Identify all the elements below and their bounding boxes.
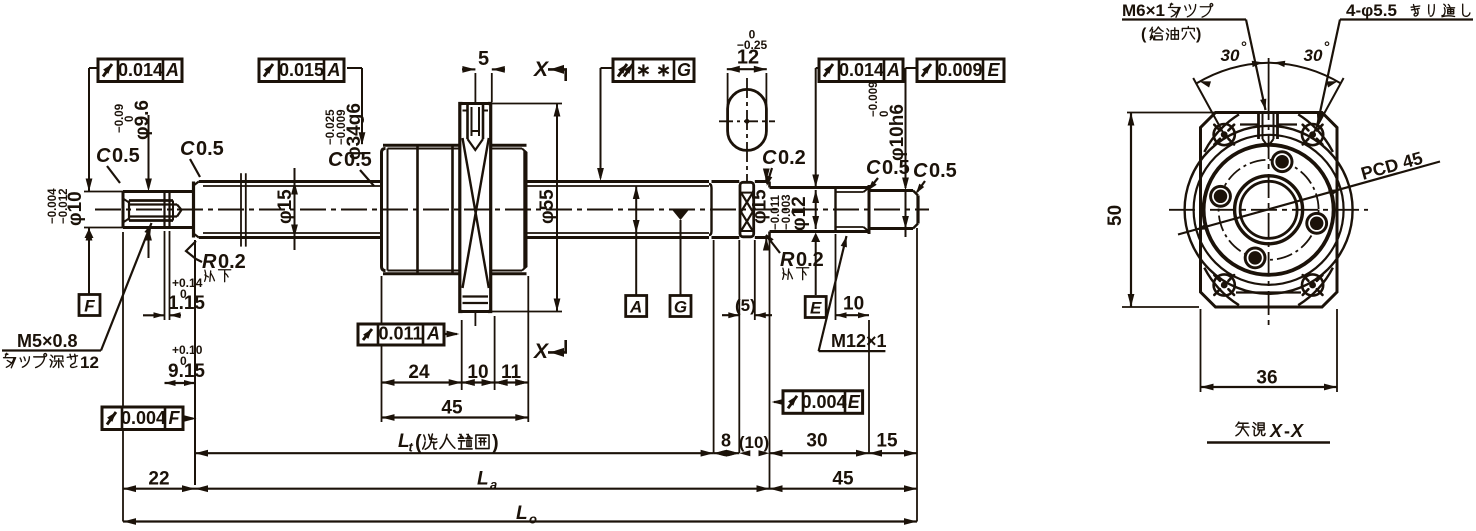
FCF runout 0.009 E xyxy=(906,59,1005,82)
dimension 45 row xyxy=(382,390,529,422)
svg-text:°: ° xyxy=(1241,39,1247,56)
FCF runout 0.014 A (right) xyxy=(816,59,903,82)
end view centerlines xyxy=(1169,58,1368,330)
svg-text:9.15: 9.15 xyxy=(168,361,205,382)
svg-text:−0.003: −0.003 xyxy=(781,195,793,231)
svg-text:30: 30 xyxy=(806,431,827,452)
svg-text:50: 50 xyxy=(1105,205,1126,226)
svg-text:8: 8 xyxy=(721,431,731,451)
label M6x1 tap (oil hole) xyxy=(1122,1,1266,110)
svg-text:36: 36 xyxy=(1256,368,1277,389)
dimension 22 xyxy=(123,232,195,522)
svg-text:A: A xyxy=(629,298,642,317)
dimension 5 (flange) xyxy=(462,48,505,102)
FCF runout 0.015 A xyxy=(259,59,362,82)
svg-text:): ) xyxy=(1196,26,1201,43)
label Lt hardened range text xyxy=(415,432,499,454)
FCF total runout ** G xyxy=(597,59,694,181)
svg-text:0: 0 xyxy=(879,111,891,117)
dimension 12 with tolerance xyxy=(727,28,768,73)
dimension Lt hardened range xyxy=(195,240,714,457)
svg-text:−0.012: −0.012 xyxy=(58,189,70,225)
svg-text:−0.09: −0.09 xyxy=(114,104,126,133)
svg-text:X: X xyxy=(533,340,550,363)
angular dimension 30-30 xyxy=(1193,39,1343,135)
svg-text:C: C xyxy=(180,138,195,160)
dimension 8 xyxy=(714,431,740,457)
chamfer label C0.5 (shaft end) xyxy=(913,160,957,194)
datum E with box xyxy=(805,297,826,318)
nut body left section xyxy=(382,145,460,273)
label 4-phi5.5 through hole xyxy=(1317,1,1473,124)
svg-text:0.5: 0.5 xyxy=(882,157,910,179)
FCF runout 0.011 A with leader xyxy=(358,324,460,346)
dimension 30 xyxy=(770,320,870,457)
svg-text:t: t xyxy=(409,440,414,455)
chamfer label C0.5 (third, at step) xyxy=(328,149,374,186)
svg-text:−0.025: −0.025 xyxy=(325,109,337,145)
svg-text:0.015: 0.015 xyxy=(279,60,324,80)
svg-text:X: X xyxy=(533,58,550,81)
dimension 9.15 xyxy=(165,240,206,485)
dimension phi15 left xyxy=(275,168,298,250)
svg-text:M5×0.8: M5×0.8 xyxy=(17,331,78,351)
svg-text:5: 5 xyxy=(478,48,489,70)
break lines xyxy=(241,173,246,246)
svg-text:-: - xyxy=(1284,421,1290,441)
svg-text:a: a xyxy=(490,477,497,492)
dimension 45 (right) xyxy=(770,469,918,493)
svg-text:12: 12 xyxy=(80,353,99,372)
M12 thread section xyxy=(836,185,870,234)
main centerline xyxy=(95,209,929,211)
svg-text:G: G xyxy=(674,298,687,317)
svg-text:24: 24 xyxy=(408,362,430,383)
dimension phi34g6 with tolerance and leader from FCF 0.015A xyxy=(325,68,365,160)
M5 tap hole thread xyxy=(123,199,182,223)
svg-text:0.5: 0.5 xyxy=(196,138,224,160)
svg-text:L: L xyxy=(477,469,489,490)
dimension (5) groove xyxy=(722,240,772,453)
dimension 24-10-11 row xyxy=(382,276,529,390)
svg-text:(5): (5) xyxy=(735,296,756,315)
svg-text:0.009: 0.009 xyxy=(937,60,982,80)
svg-text:−0.25: −0.25 xyxy=(737,38,768,52)
svg-text:(10): (10) xyxy=(739,433,769,452)
shaft left end section phi10 xyxy=(123,182,199,238)
svg-text:E: E xyxy=(987,60,1000,80)
screw shaft section (left) xyxy=(199,182,382,238)
svg-text:C: C xyxy=(96,145,111,167)
svg-text:10: 10 xyxy=(843,294,864,315)
phi15 plain section after groove xyxy=(755,182,770,238)
dimension phi55 flange xyxy=(492,104,562,312)
svg-text:0.014: 0.014 xyxy=(118,60,163,80)
thread label M12x1 xyxy=(819,236,887,351)
flange vertical centerline xyxy=(474,78,476,326)
svg-text:11: 11 xyxy=(501,362,522,383)
svg-text:0.004: 0.004 xyxy=(121,408,166,428)
end view pilot circle R65 xyxy=(1204,145,1334,275)
svg-text:φ15: φ15 xyxy=(750,189,771,224)
flange cross-section X marks xyxy=(463,138,489,288)
screw shaft section (right) xyxy=(527,182,740,238)
section arrow X bottom xyxy=(533,340,567,363)
FCF runout 0.004 E with leader xyxy=(772,391,863,414)
radius label R0.2 or-less (left) xyxy=(186,241,246,282)
svg-text:4-φ5.5: 4-φ5.5 xyxy=(1346,1,1397,20)
svg-text:F: F xyxy=(169,408,181,428)
radius label R0.2 or-less (right) xyxy=(766,234,824,280)
dimension 1.15 groove width xyxy=(143,231,205,320)
corner hole phi5.5 bottom-left xyxy=(1214,274,1235,295)
dimension phi12 with tolerance xyxy=(770,68,820,295)
svg-text:+0.10: +0.10 xyxy=(172,343,203,357)
svg-text:+0.14: +0.14 xyxy=(172,276,203,290)
label PCD 45 with leader xyxy=(1178,148,1440,235)
svg-text:A: A xyxy=(886,60,900,80)
svg-text:X: X xyxy=(1290,421,1304,441)
end view nut circle R84 xyxy=(1185,126,1353,294)
svg-text:0.011: 0.011 xyxy=(378,324,422,344)
svg-text:0: 0 xyxy=(180,287,187,301)
chamfer label C0.5 (second) xyxy=(180,138,224,177)
svg-text:22: 22 xyxy=(148,469,169,490)
boss flat lines top and bottom xyxy=(1236,125,1301,293)
svg-text:C: C xyxy=(913,160,928,182)
dimension La xyxy=(195,469,770,493)
svg-text:E: E xyxy=(810,299,822,318)
svg-text:∗ ∗: ∗ ∗ xyxy=(636,60,671,80)
svg-text:A: A xyxy=(165,60,179,80)
datum A (thread root) with box xyxy=(626,186,647,317)
svg-text:0.5: 0.5 xyxy=(344,149,372,171)
dimension 15 xyxy=(869,228,917,522)
svg-text:0.5: 0.5 xyxy=(929,160,957,182)
svg-text:45: 45 xyxy=(441,398,463,419)
svg-text:°: ° xyxy=(1324,39,1330,56)
svg-text:(: ( xyxy=(415,432,422,454)
svg-text:−0.009: −0.009 xyxy=(868,82,880,118)
dimension 36 (end view) xyxy=(1201,309,1338,392)
svg-text:): ) xyxy=(492,432,499,454)
svg-text:10: 10 xyxy=(467,362,488,383)
svg-text:30: 30 xyxy=(1221,46,1240,65)
FCF runout 0.014 A (left) xyxy=(89,59,182,82)
corner hole phi5.5 top-left xyxy=(1214,124,1235,145)
svg-text:R: R xyxy=(202,251,217,273)
grease tap hole M6 in flange xyxy=(468,104,484,151)
svg-text:C: C xyxy=(866,157,881,179)
M6 oil hole slot at flange top xyxy=(1259,113,1278,147)
svg-text:L: L xyxy=(516,503,528,524)
dimension 50 (end view) xyxy=(1105,113,1216,308)
svg-text:F: F xyxy=(84,297,95,316)
svg-text:C: C xyxy=(762,147,777,169)
svg-text:0.2: 0.2 xyxy=(778,147,806,169)
end view flange circle (phi55, clipped) xyxy=(1204,114,1333,305)
circlip groove on left end xyxy=(165,191,170,229)
end view PCD45 bolt circle xyxy=(1219,160,1319,260)
datum G (axis) with box xyxy=(670,210,691,316)
svg-text:0.014: 0.014 xyxy=(839,60,884,80)
dimension (10) xyxy=(739,240,770,489)
dimension phi9.6 with tolerance xyxy=(114,100,153,258)
svg-text:E: E xyxy=(848,392,861,412)
section arrow X top xyxy=(533,58,567,81)
svg-text:C: C xyxy=(328,149,343,171)
chamfer label C0.5 (first) xyxy=(96,145,140,183)
phi12 section xyxy=(770,188,836,232)
view title YaShi X-X xyxy=(1207,421,1330,443)
nut flange xyxy=(460,104,491,312)
svg-text:A: A xyxy=(327,60,341,80)
svg-text:0.004: 0.004 xyxy=(801,392,846,412)
dimension 10 (M12 length) xyxy=(836,234,870,320)
svg-text:0: 0 xyxy=(180,354,187,368)
svg-text:X: X xyxy=(1269,421,1283,441)
dimension Lo overall xyxy=(123,503,917,527)
chamfer label C0.2 xyxy=(762,147,806,186)
svg-text:M12×1: M12×1 xyxy=(831,331,887,351)
dimension phi15 at groove xyxy=(750,169,771,251)
svg-text:−0.009: −0.009 xyxy=(336,110,348,146)
dimension phi10h6 with tolerance xyxy=(868,68,909,237)
svg-text:o: o xyxy=(529,512,537,527)
end view circle R75 xyxy=(1194,135,1344,285)
wrench flat relief groove with cross marks xyxy=(740,182,754,237)
dimension phi10 with tolerance and datum F xyxy=(47,68,123,316)
svg-text:45: 45 xyxy=(832,469,854,490)
svg-text:(: ( xyxy=(1141,26,1147,43)
svg-text:0.5: 0.5 xyxy=(112,145,140,167)
svg-text:φ15: φ15 xyxy=(275,189,296,224)
svg-text:−0.011: −0.011 xyxy=(770,195,782,230)
nut body right section xyxy=(491,145,527,273)
svg-text:15: 15 xyxy=(876,431,898,452)
chamfer label C0.5 (M12 end) xyxy=(866,157,910,191)
svg-text:φ55: φ55 xyxy=(537,189,558,224)
four bolt holes on PCD45 xyxy=(1209,150,1328,269)
svg-text:30: 30 xyxy=(1304,46,1323,65)
svg-text:M6×1: M6×1 xyxy=(1122,1,1165,20)
FCF runout 0.004 F with leader xyxy=(102,407,197,430)
corner hole phi5.5 top-right xyxy=(1302,124,1323,145)
phi10h6 end section xyxy=(869,191,918,229)
svg-text:1.15: 1.15 xyxy=(168,293,205,314)
end view flange plate (octagon) xyxy=(1201,113,1338,308)
corner hole phi5.5 bottom-right xyxy=(1302,274,1323,295)
wrench flat obround detail xyxy=(719,73,775,183)
end view center bore xyxy=(1235,176,1303,244)
thread label M5x0.8 tap depth 12 xyxy=(2,223,152,372)
svg-text:G: G xyxy=(677,60,691,80)
svg-text:R: R xyxy=(780,249,795,271)
svg-text:A: A xyxy=(426,324,440,344)
